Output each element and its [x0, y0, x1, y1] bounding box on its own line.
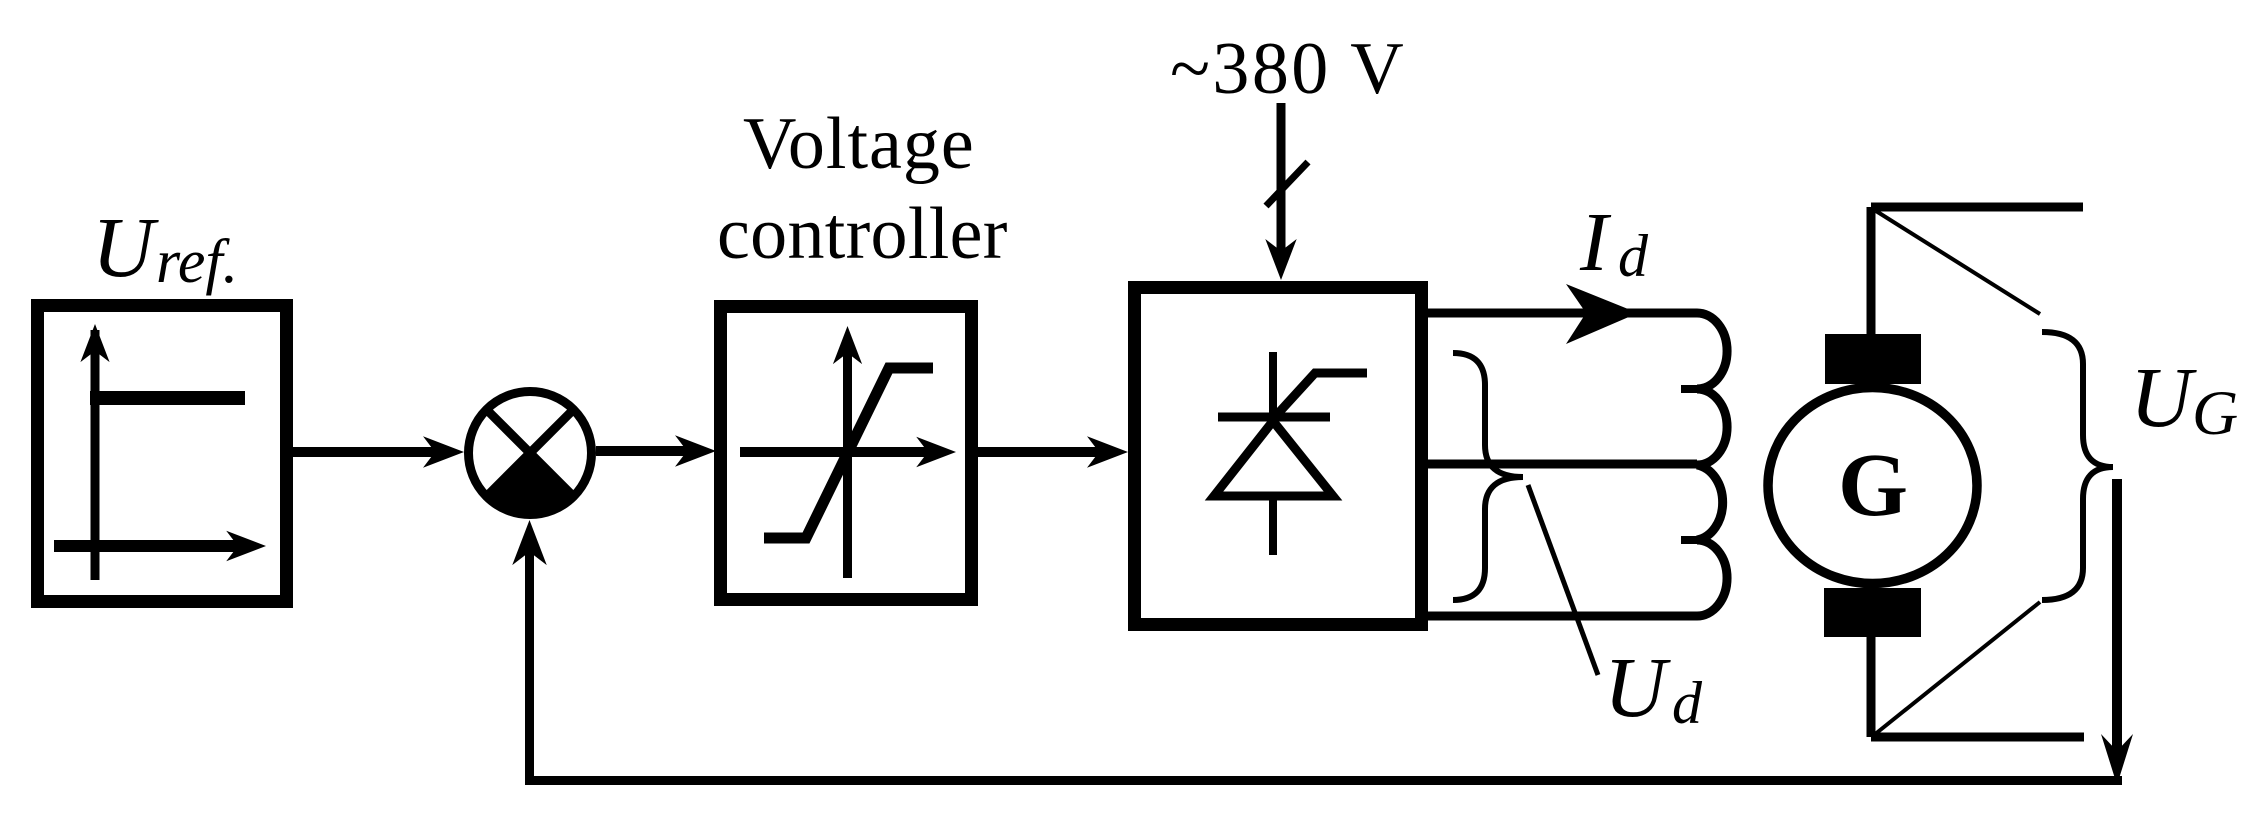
svg-text:U: U	[1604, 639, 1671, 735]
svg-text:ref.: ref.	[156, 228, 238, 296]
svg-text:U: U	[2130, 349, 2197, 445]
svg-text:d: d	[1672, 670, 1703, 736]
svg-text:G: G	[1838, 436, 1908, 535]
svg-text:G: G	[2192, 377, 2238, 448]
svg-text:I: I	[1579, 196, 1612, 289]
svg-text:U: U	[92, 199, 159, 295]
svg-text:Voltage: Voltage	[743, 103, 975, 185]
svg-text:~380 V: ~380 V	[1170, 28, 1406, 110]
svg-text:controller: controller	[717, 193, 1008, 275]
svg-text:d: d	[1618, 223, 1649, 289]
